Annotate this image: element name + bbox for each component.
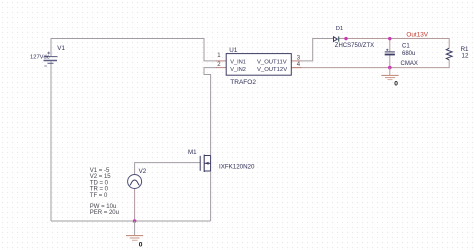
battery V1 plus mark [47,52,50,55]
battery V1 thick plate [44,60,58,62]
junction node at C1 bottom / ground [388,66,392,70]
svg-text:PER = 20u: PER = 20u [90,210,119,216]
transformer U1 box [226,54,291,76]
svg-text:V_IN2: V_IN2 [230,67,246,73]
diode D1 cathode bar [338,36,340,41]
svg-text:CMAX: CMAX [401,61,418,67]
svg-text:V_OUT12V: V_OUT12V [257,67,287,73]
wire V2 bottom to ground node [134,189,136,222]
battery V1 top plate [45,56,58,58]
U1 pin 2 stub [216,67,226,69]
mosfet M1 body stub [204,162,210,164]
junction node at V2 ground [133,219,137,223]
capacitor C1 bottom plate [385,54,395,56]
mosfet M1 body arrow [205,162,209,165]
svg-text:V1 = -5: V1 = -5 [90,168,110,174]
junction node after diode [344,37,347,40]
wire diode cathode to R1 top [339,39,449,49]
wire U1 pin3 up to diode anode [301,39,333,61]
wire mosfet source to bottom [210,171,212,221]
capacitor C1 top plate [385,51,395,53]
svg-text:V2 = 15: V2 = 15 [90,174,112,180]
wire C1 bottom [389,55,391,67]
mosfet M1 drain stub [204,155,210,157]
wire U1 pin2 to mosfet drain [204,68,217,156]
svg-text:12: 12 [462,53,469,60]
svg-text:PW = 10u: PW = 10u [90,204,117,210]
capacitor C1 plus mark [386,49,388,51]
svg-text:V_OUT11V: V_OUT11V [257,59,287,65]
svg-text:IXFK120N20: IXFK120N20 [219,164,255,171]
wire V2 top to mosfet gate [135,163,201,175]
svg-text:V2: V2 [139,168,147,175]
mosfet M1 gate bar [199,156,201,171]
svg-text:C1: C1 [402,43,410,49]
svg-text:TRAFO2: TRAFO2 [230,79,256,86]
junction node at C1 top [388,37,391,40]
wire output bottom U1 pin4 to R1 bottom [291,60,449,68]
battery V1 short plate [48,62,54,64]
mosfet M1 source stub [204,170,210,172]
ground 0 at V2 [126,221,143,240]
U1 pin 3 stub [291,60,301,62]
resistor R1 zigzag [446,48,452,60]
svg-text:TD = 0: TD = 0 [90,180,109,186]
pulse source V2 circle [128,175,142,189]
svg-text:0: 0 [394,80,398,87]
svg-text:V_IN1: V_IN1 [230,59,246,65]
diode D1 triangle [334,37,338,42]
wire battery top to U1 pin1 [51,39,217,61]
V2 pulse waveform glyph [130,180,140,185]
svg-text:D1: D1 [336,26,343,32]
svg-text:TR = 0: TR = 0 [90,187,109,193]
V2 parameter list [90,168,119,216]
U1 pin 1 stub [216,60,226,62]
svg-text:U1: U1 [229,47,238,54]
svg-text:Out13V: Out13V [406,32,428,39]
U1 pin 4 stub [291,67,301,69]
svg-text:ZHCS750/ZTX: ZHCS750/ZTX [335,43,374,49]
ground 0 at C1 [381,68,398,80]
wire battery bottom left vertical [50,61,52,221]
svg-text:V1: V1 [57,45,65,52]
svg-text:M1: M1 [188,149,197,156]
mosfet M1 right rail [210,156,212,172]
svg-text:127Vdc: 127Vdc [30,55,50,61]
mosfet M1 channel bar [203,155,205,172]
wire bottom horizontal [51,220,211,222]
svg-text:680u: 680u [402,51,415,57]
battery V1 minus mark [44,65,47,67]
wire C1 top [389,39,391,52]
svg-text:TF = 0: TF = 0 [90,193,108,199]
svg-text:0: 0 [139,241,143,248]
